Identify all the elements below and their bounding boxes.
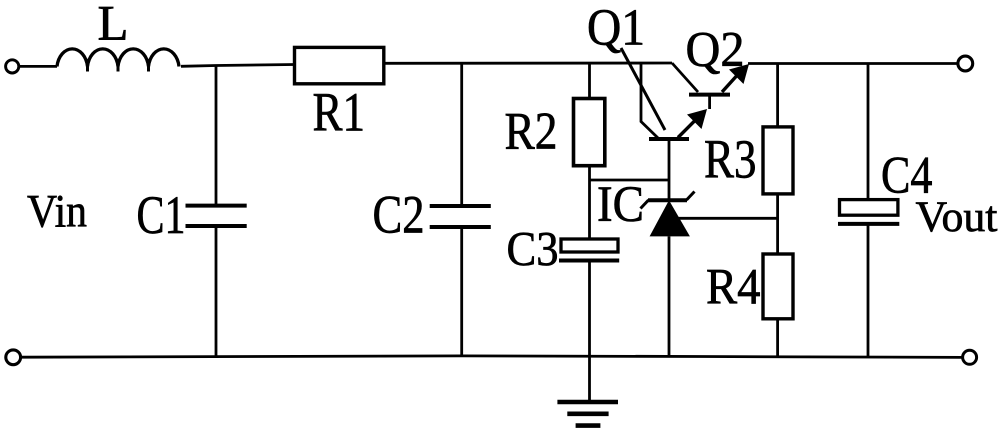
svg-text:Vin: Vin — [27, 186, 87, 238]
capacitor C2 — [430, 206, 491, 227]
svg-text:Vout: Vout — [916, 193, 998, 241]
svg-text:Q1: Q1 — [587, 0, 645, 57]
transistor Q2 collector — [672, 63, 698, 92]
node C2 branch wire — [460, 63, 463, 206]
wire R3 to R4 — [776, 193, 779, 253]
node R3 branch wire — [776, 64, 779, 127]
svg-text:C2: C2 — [373, 185, 425, 245]
transistor Q2 base lead stub — [708, 95, 711, 109]
wire Q2 emitter to output terminal — [748, 62, 958, 65]
bottom rail wire — [21, 356, 962, 358]
svg-text:R4: R4 — [706, 260, 761, 316]
svg-text:C3: C3 — [507, 221, 559, 276]
resistor R1 — [295, 47, 384, 83]
inductor cusp ticks — [88, 66, 149, 72]
svg-text:Q2: Q2 — [686, 21, 745, 77]
label pointer line Q1 — [621, 48, 665, 130]
ground bar 1 — [557, 400, 618, 405]
transistor Q1 base bar — [649, 137, 689, 141]
transistor Q2 emitter — [722, 71, 741, 92]
svg-text:C1: C1 — [137, 185, 186, 245]
capacitor C3 bottom plate — [559, 259, 619, 263]
transistor Q1 emitter arrowhead — [687, 109, 707, 129]
wire R2 bottom to node — [588, 165, 591, 239]
ground stem — [588, 357, 591, 402]
node C1 branch wire — [215, 66, 218, 206]
ground bar 3 — [576, 423, 601, 428]
zener left wing — [641, 200, 649, 209]
wire zener to bottom rail — [668, 236, 671, 356]
wire R4 to bottom rail — [776, 318, 779, 357]
wire C3 to bottom rail — [588, 261, 591, 357]
ground bar 2 — [567, 411, 608, 416]
wire input to inductor — [19, 65, 57, 68]
input terminal top-left — [6, 60, 19, 73]
svg-text:R2: R2 — [505, 103, 558, 161]
transistor Q1 emitter — [678, 117, 699, 138]
zener right wing — [687, 192, 695, 201]
node R2 branch wire — [588, 63, 591, 100]
wire R1 to Q2 collector — [385, 62, 672, 65]
capacitor C4 bottom plate — [838, 222, 899, 226]
resistor R4 — [763, 254, 793, 319]
svg-text:IC: IC — [597, 177, 644, 233]
resistor R3 — [763, 127, 793, 194]
wire zener ref to R3 R4 junction — [676, 217, 778, 220]
output terminal top-right — [958, 56, 973, 71]
transistor Q2 emitter arrowhead — [729, 64, 749, 84]
svg-text:R3: R3 — [704, 129, 757, 190]
capacitor C1 — [186, 206, 247, 226]
svg-text:R1: R1 — [313, 82, 366, 143]
output terminal bottom-right — [963, 350, 977, 364]
wire C2 to bottom rail — [460, 227, 463, 357]
zener IC triangle — [650, 200, 690, 236]
transistor Q1 base lead — [668, 139, 671, 200]
zener IC cathode bar — [641, 192, 695, 209]
wire C4 to bottom rail — [867, 224, 870, 357]
node C4 branch wire — [867, 64, 870, 200]
input terminal bottom-left — [6, 350, 21, 365]
inductor L — [57, 49, 179, 67]
resistor R2 — [574, 99, 605, 166]
capacitor C3 polarized top plate — [561, 239, 618, 252]
transistor Q2 base bar — [689, 93, 730, 97]
svg-text:L: L — [98, 0, 129, 51]
transistor Q1 collector — [641, 63, 658, 138]
wire C1 to bottom rail — [215, 226, 218, 357]
wire R2 node to Q1 base line — [590, 179, 670, 182]
capacitor C4 polarized top plate — [840, 200, 898, 216]
wire inductor to R1 — [181, 65, 295, 67]
